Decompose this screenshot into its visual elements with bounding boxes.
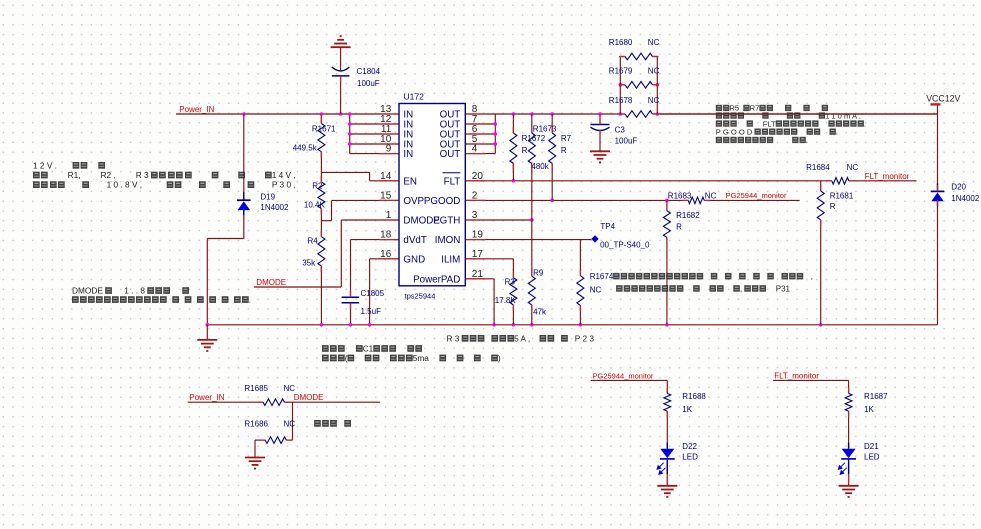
svg-text:Power_IN: Power_IN bbox=[179, 105, 214, 114]
svg-text:R1680: R1680 bbox=[609, 38, 633, 47]
svg-text:R7: R7 bbox=[561, 134, 572, 143]
svg-text:1N4002: 1N4002 bbox=[951, 194, 980, 203]
resistor R1686 bbox=[244, 420, 295, 444]
svg-text:FLT: FLT bbox=[763, 119, 776, 128]
svg-text:IN: IN bbox=[403, 149, 413, 160]
IC U172 body bbox=[399, 92, 465, 301]
wire GND bus bottom bbox=[207, 324, 937, 326]
svg-text:): ) bbox=[498, 353, 501, 363]
svg-text:1K: 1K bbox=[864, 405, 874, 414]
note pullup line3 bbox=[716, 119, 866, 128]
U172 pin numbers bbox=[380, 104, 483, 280]
svg-text:100uF: 100uF bbox=[615, 137, 638, 146]
svg-text:R: R bbox=[676, 222, 682, 231]
junction dots Power_IN bbox=[242, 112, 352, 146]
svg-text:LED: LED bbox=[682, 452, 698, 461]
svg-text:1: 1 bbox=[386, 210, 392, 221]
svg-text:C3: C3 bbox=[615, 125, 626, 134]
svg-text:1 4 V ,: 1 4 V , bbox=[272, 170, 296, 180]
svg-text:20: 20 bbox=[472, 171, 484, 182]
svg-text:DMODE: DMODE bbox=[294, 393, 324, 402]
svg-text:17.8K: 17.8K bbox=[495, 296, 517, 305]
svg-text:NC: NC bbox=[284, 420, 296, 429]
svg-text:D20: D20 bbox=[951, 182, 966, 191]
svg-text:P 3 0 ,: P 3 0 , bbox=[272, 180, 296, 190]
svg-text:TP4: TP4 bbox=[600, 222, 615, 231]
note pullup line1 bbox=[716, 104, 828, 113]
svg-text:R1682: R1682 bbox=[676, 211, 700, 220]
net label DMODE bottom bbox=[294, 393, 324, 402]
svg-text:R 3: R 3 bbox=[136, 170, 149, 180]
svg-text:17: 17 bbox=[472, 249, 484, 260]
svg-text:PowerPAD: PowerPAD bbox=[413, 274, 460, 285]
resistor R4 bbox=[302, 231, 325, 272]
svg-text:D21: D21 bbox=[864, 442, 879, 451]
note pullup line2 bbox=[716, 111, 861, 120]
svg-text:dVdT: dVdT bbox=[403, 235, 426, 246]
wire FLT row to FLT_monitor bbox=[465, 179, 916, 183]
note R3 limit bbox=[447, 333, 595, 343]
svg-text:15: 15 bbox=[380, 190, 392, 201]
wire PowerPAD to bus bbox=[465, 279, 494, 325]
svg-text:19: 19 bbox=[472, 230, 484, 241]
svg-text:1K: 1K bbox=[682, 405, 692, 414]
capacitor C3 bbox=[591, 114, 638, 146]
net label FLT_monitor bottom bbox=[774, 371, 819, 380]
svg-text:FLT: FLT bbox=[444, 176, 461, 187]
wire OVP bbox=[321, 200, 399, 220]
svg-text:9: 9 bbox=[386, 144, 392, 155]
svg-text:FLT_monitor: FLT_monitor bbox=[865, 172, 910, 181]
svg-text:PGOOD: PGOOD bbox=[424, 196, 460, 207]
resistor R2 bbox=[304, 176, 326, 215]
resistor R9 bbox=[528, 269, 547, 317]
svg-text:NC: NC bbox=[590, 285, 602, 294]
svg-text:D22: D22 bbox=[682, 442, 697, 451]
svg-text:PG25944_monitor: PG25944_monitor bbox=[593, 371, 654, 380]
wire C1804 link bbox=[340, 47, 342, 114]
resistor R3 bbox=[495, 272, 517, 311]
svg-text:1N4002: 1N4002 bbox=[260, 203, 289, 212]
svg-text:D19: D19 bbox=[260, 193, 275, 202]
svg-text:.: . bbox=[864, 119, 866, 128]
ground below C3 bbox=[590, 151, 610, 162]
resistor R1674 bbox=[577, 270, 614, 312]
svg-text:FLT_monitor: FLT_monitor bbox=[774, 371, 819, 380]
resistor R1672 bbox=[510, 127, 546, 170]
svg-text:R1687: R1687 bbox=[864, 392, 888, 401]
note R1674 line2 bbox=[616, 284, 790, 293]
svg-text:R7: R7 bbox=[750, 104, 760, 113]
svg-text:R5: R5 bbox=[729, 104, 739, 113]
resistor R1680 bbox=[609, 38, 660, 60]
svg-text:3: 3 bbox=[472, 210, 478, 221]
svg-text:LED: LED bbox=[864, 452, 880, 461]
resistor R1673 bbox=[528, 124, 557, 171]
wire ILIM to R3 bbox=[465, 259, 513, 325]
ground below R1686 bbox=[245, 458, 265, 469]
net label FLT_monitor bbox=[865, 172, 910, 181]
note C1 line2 bbox=[322, 353, 501, 363]
wire PG25944_monitor LED branch bbox=[591, 380, 668, 485]
svg-text:R1688: R1688 bbox=[682, 392, 706, 401]
svg-text:R1679: R1679 bbox=[609, 67, 633, 76]
svg-text:.: . bbox=[249, 295, 251, 305]
svg-text:100uF: 100uF bbox=[357, 79, 380, 88]
wire IMON row to TP4 bbox=[465, 239, 591, 241]
svg-text:OUT: OUT bbox=[440, 149, 461, 160]
svg-text:C1805: C1805 bbox=[361, 289, 385, 298]
U172 pin stubs bbox=[379, 114, 485, 279]
svg-text:1.5uF: 1.5uF bbox=[361, 307, 382, 316]
net label PG25944_monitor bbox=[726, 191, 787, 200]
ground left below bus bbox=[197, 340, 217, 351]
resistor R1679 bbox=[609, 67, 660, 89]
wire UV/OV divider chain bbox=[320, 114, 322, 325]
wire OUT bus overdraw at annotation bbox=[660, 113, 937, 115]
diode D19 bbox=[237, 188, 289, 221]
wire DMODE net bbox=[254, 220, 399, 287]
svg-text:21: 21 bbox=[472, 269, 484, 280]
svg-text:VCC12V: VCC12V bbox=[926, 94, 960, 104]
svg-text:C1: C1 bbox=[363, 343, 374, 353]
resistor R7 bbox=[549, 127, 572, 170]
svg-text:18: 18 bbox=[380, 230, 392, 241]
wire R1674 IMON to bus bbox=[579, 240, 581, 325]
resistor R1683 bbox=[668, 191, 717, 203]
svg-text:.: . bbox=[806, 136, 808, 145]
net label Power_IN bottom bbox=[189, 393, 224, 402]
U172 pin names bbox=[403, 110, 460, 286]
svg-text:47k: 47k bbox=[533, 308, 547, 317]
svg-text:00_TP-S40_0: 00_TP-S40_0 bbox=[600, 241, 650, 250]
wire NC resistor ladder rails bbox=[620, 57, 657, 115]
svg-text:R: R bbox=[830, 202, 836, 211]
resistor R1671 bbox=[293, 114, 336, 158]
junction dots GND bus bbox=[206, 323, 823, 327]
svg-text:R1674: R1674 bbox=[590, 272, 614, 281]
svg-text:tps25944: tps25944 bbox=[405, 292, 436, 301]
svg-text:NC: NC bbox=[648, 38, 660, 47]
note DMODE line2 bbox=[72, 295, 251, 305]
wire EN bbox=[321, 172, 399, 180]
svg-text:GND: GND bbox=[403, 254, 425, 265]
test point TP4 bbox=[591, 222, 650, 250]
svg-text:P 2 3: P 2 3 bbox=[575, 333, 595, 343]
wire R1672 to FLT bbox=[512, 114, 514, 181]
wire PGTH row bbox=[465, 218, 533, 222]
svg-text:14: 14 bbox=[380, 171, 392, 182]
svg-text:,: , bbox=[740, 284, 742, 293]
svg-text:OVP: OVP bbox=[403, 196, 424, 207]
svg-text:DMODE: DMODE bbox=[72, 286, 103, 296]
svg-text:R1685: R1685 bbox=[244, 384, 268, 393]
svg-text:R: R bbox=[561, 146, 567, 155]
svg-text:ILIM: ILIM bbox=[441, 254, 460, 265]
resistor R1678 bbox=[609, 96, 660, 117]
note pullup line4 bbox=[716, 127, 838, 136]
ground top inverted at C1804 bbox=[331, 36, 351, 47]
svg-text:DMODE: DMODE bbox=[256, 278, 286, 287]
wire OUT bus VCC12V bbox=[465, 114, 937, 154]
wire GND pin to bus bbox=[370, 259, 399, 325]
diode D20 bbox=[931, 182, 980, 206]
svg-text:NC: NC bbox=[648, 67, 660, 76]
net label PG25944_monitor bottom bbox=[593, 371, 654, 380]
resistor R1682 bbox=[663, 205, 700, 244]
svg-text:4: 4 bbox=[472, 144, 478, 155]
LED D21 bbox=[838, 442, 879, 484]
resistor R1687 bbox=[845, 387, 888, 417]
resistor R1684 bbox=[806, 163, 858, 184]
power port VCC12V bbox=[926, 94, 960, 105]
svg-text:.: . bbox=[836, 127, 838, 136]
svg-text:,: , bbox=[811, 272, 813, 281]
svg-text:P31: P31 bbox=[776, 284, 791, 293]
svg-text:PGTH: PGTH bbox=[433, 216, 460, 227]
svg-text:5ma: 5ma bbox=[413, 353, 430, 363]
note input threshold line2 bbox=[33, 170, 296, 180]
svg-text:R 3: R 3 bbox=[447, 333, 460, 343]
resistor R1688 bbox=[664, 387, 707, 417]
note C1 line1 bbox=[322, 343, 422, 353]
wire C3 to ground bbox=[599, 114, 601, 151]
svg-text:NC: NC bbox=[847, 163, 859, 172]
net label Power_IN bbox=[179, 105, 214, 114]
wire R1673 R9 divider bbox=[531, 114, 533, 325]
resistor R1685 bbox=[244, 384, 295, 405]
svg-text:1 0 . 8 V ,: 1 0 . 8 V , bbox=[107, 180, 143, 190]
wire Power_IN bus bbox=[176, 114, 399, 154]
svg-text:R1678: R1678 bbox=[609, 96, 633, 105]
wire R7 to PGOOD bbox=[551, 114, 553, 200]
LED D22 bbox=[657, 442, 698, 484]
wire R1681 FLT to bus bbox=[820, 181, 822, 325]
ground below D22 bbox=[657, 486, 677, 497]
wire Power_IN to DMODE bottom bbox=[188, 402, 381, 457]
svg-text:R2: R2 bbox=[312, 182, 323, 191]
note pullup line5 bbox=[716, 136, 808, 145]
svg-text:R1,: R1, bbox=[68, 170, 81, 180]
note input threshold line3 bbox=[33, 180, 296, 190]
svg-text:IMON: IMON bbox=[435, 235, 461, 246]
svg-text:R1673: R1673 bbox=[533, 124, 557, 133]
ground below D21 bbox=[839, 486, 859, 497]
svg-text:R: R bbox=[522, 146, 528, 155]
svg-text:1 1 0 m A .: 1 1 0 m A . bbox=[825, 111, 861, 120]
note input threshold line1 bbox=[33, 160, 105, 170]
svg-text:1 2 V .: 1 2 V . bbox=[33, 160, 57, 170]
net label DMODE mid bbox=[256, 278, 286, 287]
svg-text:C1804: C1804 bbox=[357, 67, 381, 76]
svg-text:PG25944_monitor: PG25944_monitor bbox=[726, 191, 787, 200]
svg-text:P G O O D: P G O O D bbox=[716, 127, 753, 136]
note R1674 line1 bbox=[613, 272, 813, 281]
svg-text:R1686: R1686 bbox=[244, 420, 268, 429]
wire R1682 PGOOD to bus bbox=[666, 200, 668, 324]
svg-text:EN: EN bbox=[403, 176, 417, 187]
note DMODE line1 bbox=[72, 286, 189, 296]
svg-text:R2 ,: R2 , bbox=[101, 170, 116, 180]
svg-text:NC: NC bbox=[648, 96, 660, 105]
svg-text:16: 16 bbox=[380, 249, 392, 260]
junction dots OUT bus bbox=[494, 83, 660, 146]
note DMODE floating bbox=[314, 420, 351, 427]
svg-text:10.4K: 10.4K bbox=[304, 200, 326, 209]
wire D19 branch to ground bbox=[207, 114, 244, 325]
svg-text:5 A ,: 5 A , bbox=[514, 333, 530, 343]
wire FLT_monitor LED branch bbox=[773, 380, 849, 485]
svg-text:(: ( bbox=[345, 353, 348, 363]
svg-text:U172: U172 bbox=[404, 92, 425, 102]
svg-text:449.5k: 449.5k bbox=[293, 144, 318, 153]
svg-text:480k: 480k bbox=[531, 162, 549, 171]
svg-text:R4: R4 bbox=[308, 237, 319, 246]
svg-text:NC: NC bbox=[705, 191, 717, 200]
svg-text:2: 2 bbox=[472, 190, 478, 201]
svg-text:R1684: R1684 bbox=[806, 163, 830, 172]
svg-text:R1671: R1671 bbox=[312, 125, 336, 134]
wire VCC12V D20 vertical bbox=[937, 104, 939, 324]
resistor R1681 bbox=[817, 185, 854, 226]
svg-text:Power_IN: Power_IN bbox=[189, 393, 224, 402]
svg-text:R3: R3 bbox=[505, 278, 516, 287]
svg-text:35k: 35k bbox=[302, 259, 316, 268]
capacitor C1804 bbox=[332, 67, 381, 88]
wire PGOOD row to PG25944_monitor bbox=[465, 199, 799, 203]
svg-text:R1683: R1683 bbox=[668, 191, 692, 200]
svg-text:1 . . 8: 1 . . 8 bbox=[124, 286, 145, 296]
wire dVdT to C1805 bbox=[351, 240, 400, 325]
svg-text:R1681: R1681 bbox=[830, 191, 854, 200]
svg-text:R9: R9 bbox=[533, 269, 544, 278]
wire bus left end ground stem bbox=[206, 325, 208, 340]
capacitor C1805 bbox=[342, 289, 385, 316]
svg-text:R1672: R1672 bbox=[522, 134, 546, 143]
